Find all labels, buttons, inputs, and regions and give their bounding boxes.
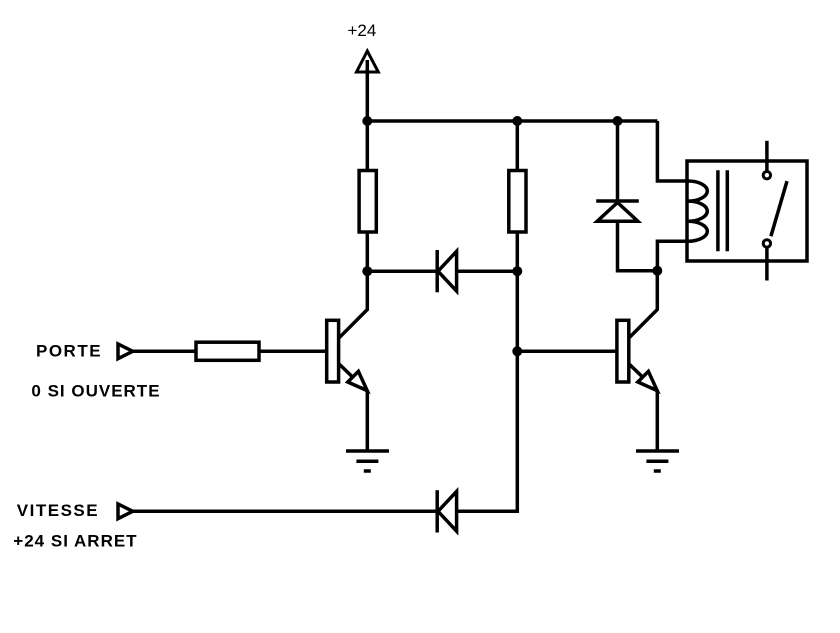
- node at rail / R2: [512, 116, 522, 126]
- power symbol +24 arrow: [357, 51, 379, 72]
- wire rail to R1: [366, 121, 370, 171]
- relay K1 core line 2: [726, 170, 730, 251]
- wire D3 anode down to collector node: [618, 221, 658, 271]
- wire Q2 emitter to ground: [656, 391, 660, 450]
- input port PORTE arrow: [118, 344, 133, 359]
- relay K1 box: [687, 161, 807, 261]
- diode D2 cathode bar: [435, 490, 439, 532]
- flyback diode D3 triangle: [597, 203, 638, 222]
- wire Q1 emitter to ground: [366, 391, 370, 450]
- ground G2: [636, 451, 679, 471]
- wire R1 to node: [366, 232, 370, 271]
- input port VITESSE arrow: [118, 504, 133, 519]
- wire D1 anode to node: [457, 269, 518, 273]
- wire node to Q2 base: [517, 350, 617, 354]
- node base net Q2 top: [512, 266, 522, 276]
- relay switch top terminal wire: [765, 141, 769, 171]
- svg-text:+24 SI ARRET: +24 SI ARRET: [13, 532, 137, 551]
- resistor R2: [509, 171, 526, 233]
- wire R3 to Q1 base: [259, 350, 327, 354]
- transistor Q2 base bar: [617, 320, 629, 382]
- node at rail / R1: [362, 116, 372, 126]
- wire node to D1 cathode: [367, 269, 437, 273]
- relay K1 coil: [688, 181, 708, 241]
- transistor Q1 collector: [339, 271, 368, 338]
- wire PORTE to R3: [134, 350, 197, 354]
- wire base net vertical: [457, 271, 518, 511]
- relay switch bottom terminal wire: [765, 248, 769, 281]
- relay K1 core line 1: [716, 170, 720, 251]
- wire power arrow to rail: [366, 60, 370, 121]
- diode D1 triangle: [438, 251, 457, 291]
- svg-text:0 SI OUVERTE: 0 SI OUVERTE: [31, 382, 160, 401]
- transistor Q1 base bar: [327, 320, 339, 382]
- wire rail to R2: [516, 121, 520, 171]
- transistor Q1 emitter arrow: [348, 371, 367, 390]
- wire VITESSE to D2: [134, 510, 438, 514]
- flyback diode D3 cathode bar: [596, 199, 639, 203]
- resistor R3: [196, 342, 259, 360]
- relay switch bottom contact circle: [763, 240, 770, 247]
- ground G1: [346, 451, 389, 471]
- transistor Q2 collector: [629, 271, 658, 339]
- transistor Q2 emitter arrow: [638, 371, 657, 390]
- diode D2 triangle: [438, 491, 457, 531]
- wire R2 to node: [516, 232, 520, 271]
- diode D1 cathode bar: [435, 250, 439, 292]
- power rail wire: [367, 119, 657, 123]
- transistor Q1 emitter diagonal: [339, 364, 368, 393]
- svg-text:VITESSE: VITESSE: [17, 501, 99, 520]
- relay switch blade: [771, 181, 787, 236]
- svg-text:+24: +24: [348, 21, 377, 40]
- relay switch top contact circle: [763, 172, 770, 179]
- wire rail to D3: [616, 121, 620, 200]
- wire rail corner to coil top: [657, 121, 687, 181]
- wire coil bottom to collector node: [657, 241, 687, 270]
- svg-text:PORTE: PORTE: [36, 342, 102, 361]
- node Q2 base: [512, 346, 522, 356]
- transistor Q2 emitter diagonal: [629, 364, 658, 393]
- node Q1 collector: [362, 266, 372, 276]
- resistor R1: [359, 171, 376, 233]
- node at rail / D3: [613, 116, 623, 126]
- node Q2 collector: [652, 266, 662, 276]
